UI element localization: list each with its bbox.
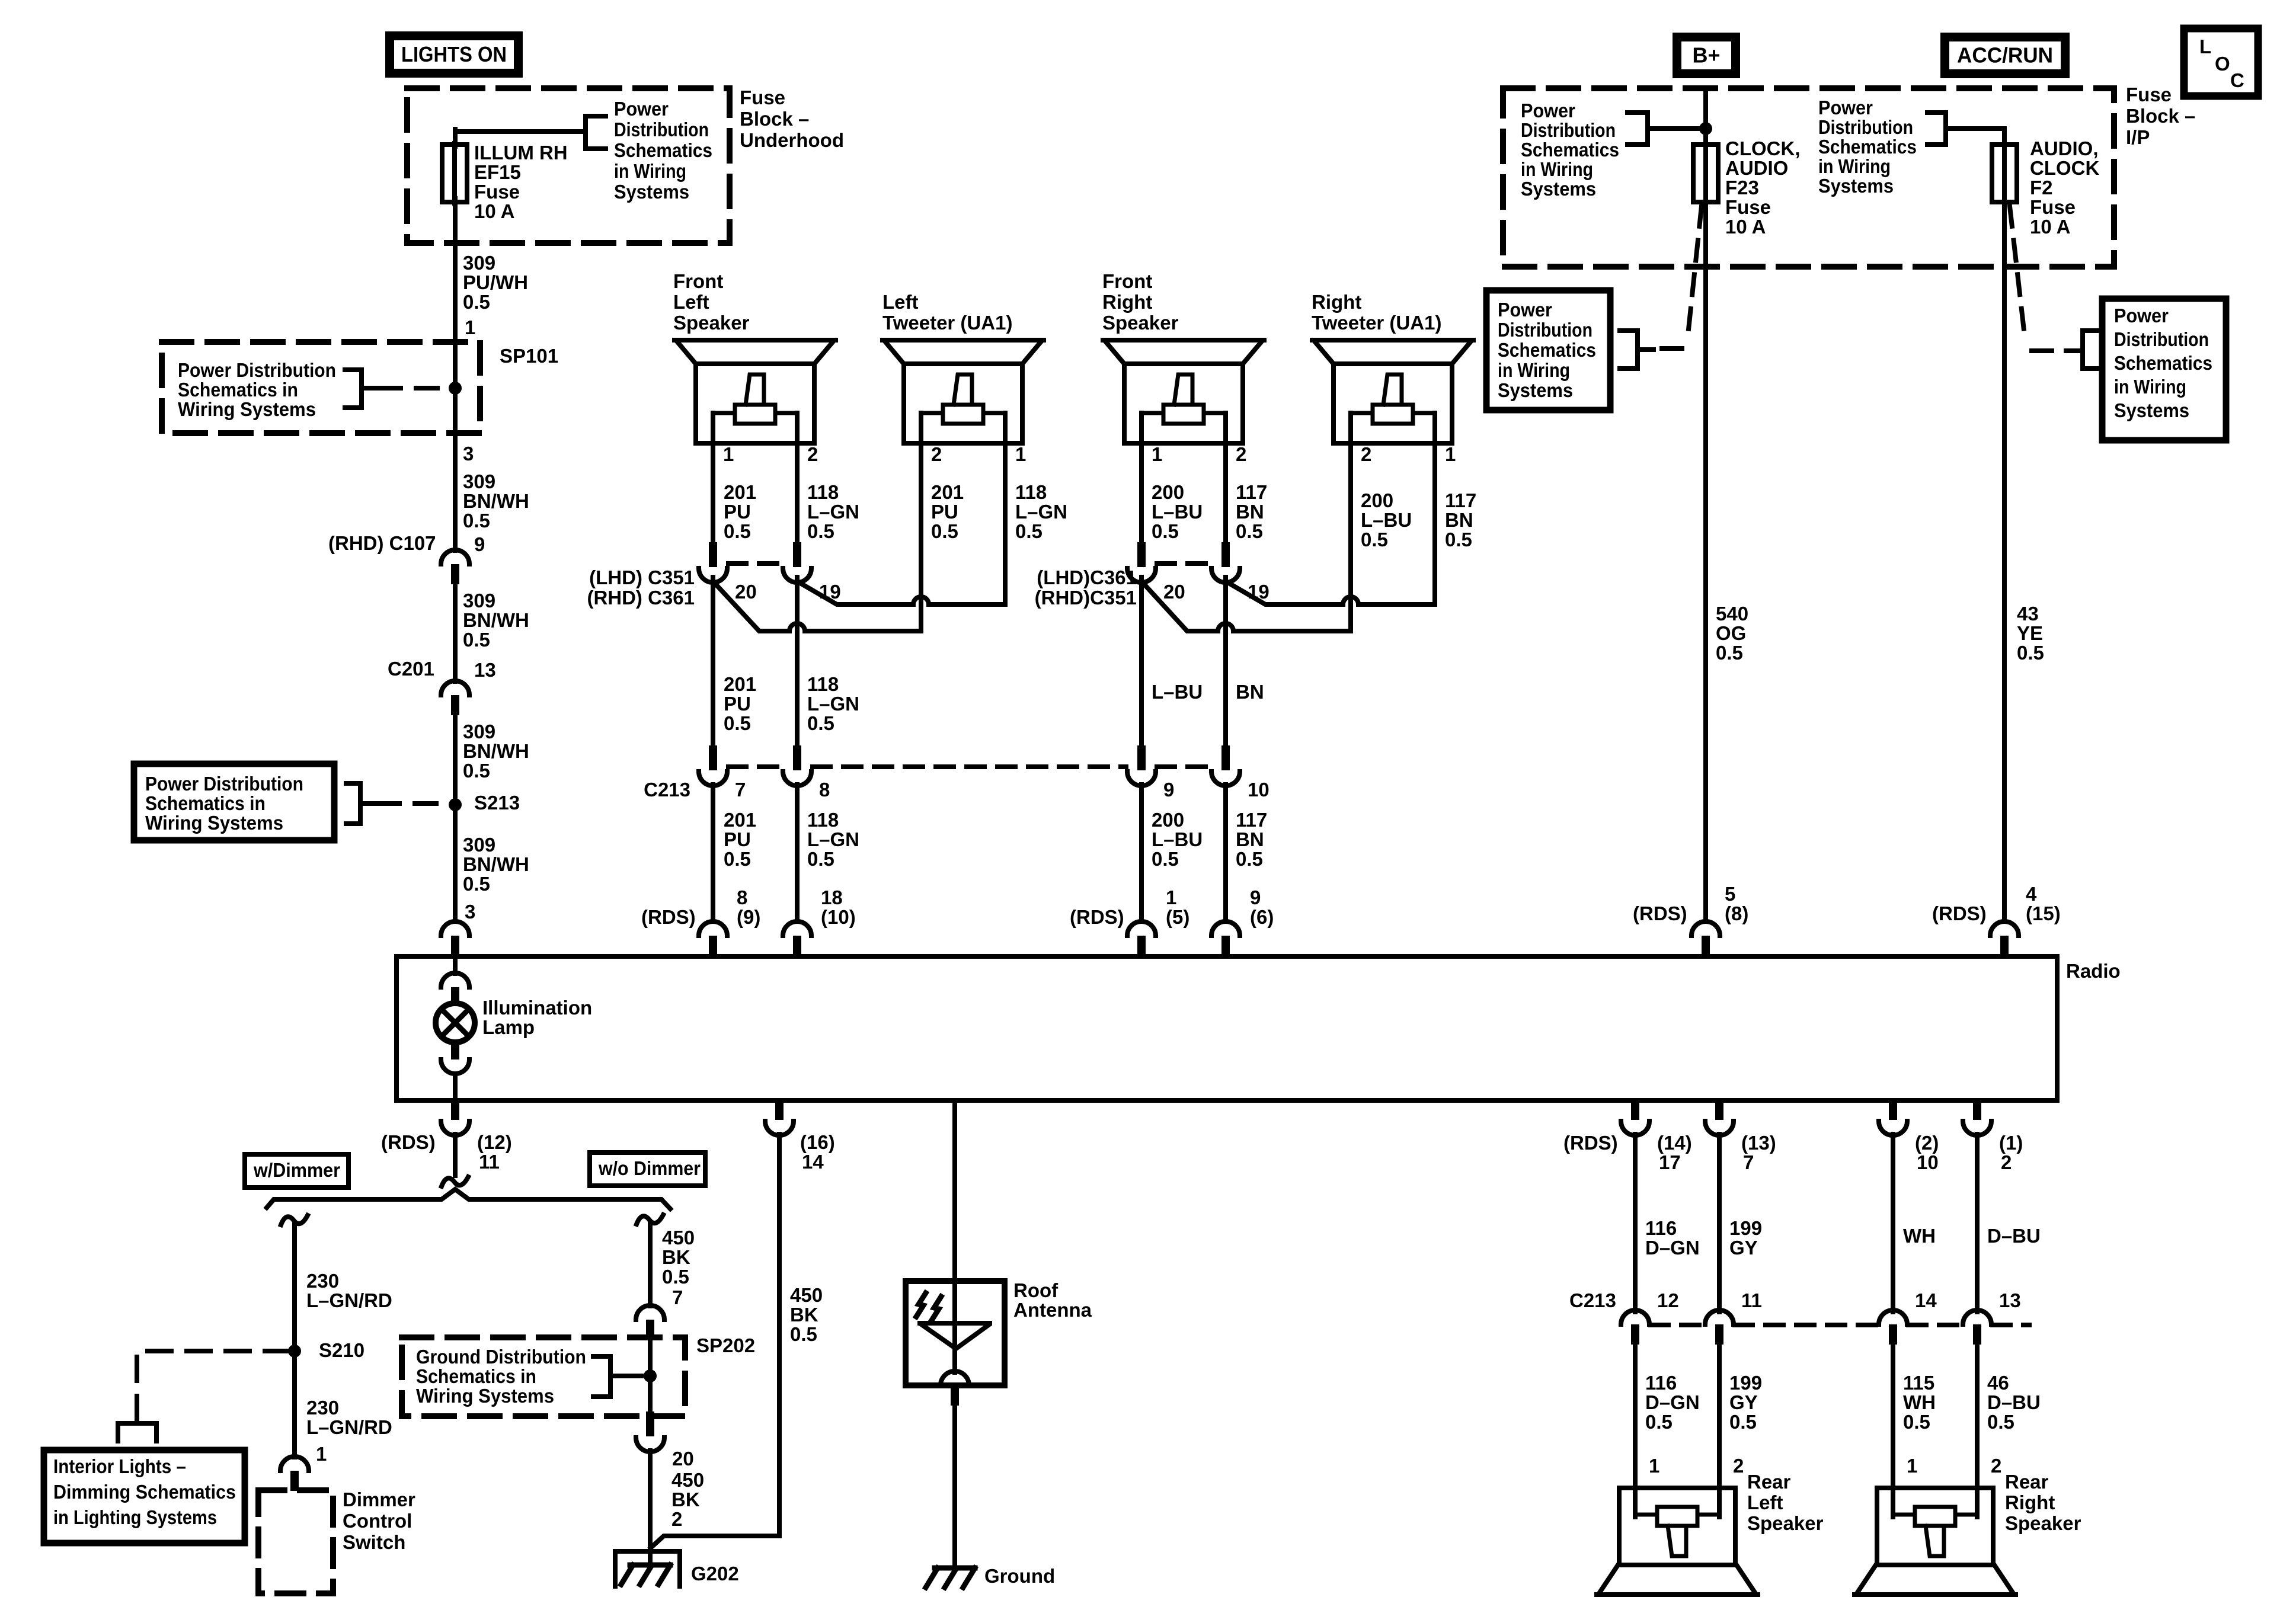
svg-text:Front: Front [1102, 270, 1152, 292]
label 117 BN 0.5 (RT-) [1445, 489, 1476, 550]
label 199 GY 0.5 [1729, 1372, 1762, 1433]
svg-text:Systems: Systems [1818, 175, 1894, 197]
wire 230 L-GN/RD (to S210) [292, 1224, 297, 1351]
svg-text:(10): (10) [821, 906, 856, 928]
wire 450 BK 2 (SP202 to G202) [648, 1451, 653, 1565]
svg-text:1: 1 [723, 443, 734, 465]
svg-text:10: 10 [1248, 779, 1269, 801]
label 8 (C213) [819, 779, 830, 801]
wire break squiggle (w/Dimmer) [281, 1215, 308, 1225]
svg-text:116: 116 [1645, 1217, 1677, 1239]
label (RDS) (rear) [1563, 1132, 1618, 1154]
svg-text:L–GN: L–GN [807, 501, 859, 523]
reference bracket S213 [346, 783, 376, 824]
svg-text:BK: BK [671, 1489, 700, 1510]
label (LHD)C361 / (RHD)C351 [1035, 566, 1137, 609]
svg-text:1: 1 [1152, 443, 1162, 465]
label 450 BK 0.5 (w/o dimmer) [662, 1227, 695, 1288]
svg-text:Schematics in: Schematics in [416, 1365, 536, 1387]
svg-text:116: 116 [1645, 1372, 1677, 1394]
svg-text:BN: BN [1236, 501, 1264, 523]
svg-text:201: 201 [724, 809, 756, 831]
label 20 (left) [735, 581, 757, 603]
svg-text:0.5: 0.5 [1987, 1411, 2014, 1433]
svg-text:(LHD) C351: (LHD) C351 [589, 566, 695, 588]
svg-text:Radio: Radio [2066, 960, 2121, 982]
svg-text:PU/WH: PU/WH [463, 271, 528, 293]
svg-text:C201: C201 [388, 658, 434, 680]
svg-text:9: 9 [1250, 886, 1261, 908]
svg-text:5: 5 [1725, 883, 1735, 905]
svg-text:2: 2 [807, 443, 818, 465]
svg-text:Systems: Systems [614, 181, 689, 203]
label 46 D–BU 0.5 [1987, 1372, 2041, 1433]
label 201 PU 0.5 (FL+) [724, 481, 756, 542]
svg-text:0.5: 0.5 [1445, 529, 1472, 550]
wire tweeter crossover lower (FL pin20 to LT pin2) [713, 443, 921, 631]
label 201 PU 0.5 (lower) [724, 809, 756, 870]
svg-text:GY: GY [1729, 1237, 1758, 1259]
svg-text:I/P: I/P [2126, 126, 2150, 148]
connector radio pin 4 [1990, 921, 2019, 958]
svg-text:118: 118 [807, 809, 839, 831]
svg-text:PU: PU [724, 693, 751, 715]
wire through SP202 [648, 1340, 653, 1416]
svg-text:Left: Left [882, 291, 919, 313]
label 309 BN/WH 0.5 (d) [463, 834, 529, 895]
svg-text:L–GN/RD: L–GN/RD [306, 1289, 392, 1311]
label (RDS) (right pair) [1070, 906, 1124, 928]
svg-text:2: 2 [1733, 1455, 1744, 1477]
connector SP202 out [636, 1411, 664, 1452]
svg-text:0.5: 0.5 [931, 520, 958, 542]
label 118 L-GN 0.5 (FL-) [807, 481, 859, 542]
wire 200 L-BU 0.5 (C213 to radio) [1139, 785, 1144, 920]
svg-text:230: 230 [306, 1397, 339, 1419]
svg-text:Fuse: Fuse [1725, 196, 1771, 218]
svg-text:2: 2 [1361, 443, 1371, 465]
svg-text:540: 540 [1716, 603, 1748, 625]
label 118 L-GN 0.5 (mid FL) [807, 673, 859, 734]
svg-text:1: 1 [1649, 1455, 1659, 1477]
label 118 L-GN 0.5 (LT-) [1015, 481, 1067, 542]
svg-text:2: 2 [1991, 1455, 2001, 1477]
svg-text:Distribution: Distribution [1521, 119, 1616, 141]
label G202 [691, 1563, 739, 1585]
svg-text:2: 2 [671, 1508, 682, 1530]
svg-text:0.5: 0.5 [662, 1266, 689, 1288]
label Power Distribution Schematics in Wiring Systems (B+ side) [1521, 100, 1619, 200]
svg-text:0.5: 0.5 [463, 629, 490, 651]
svg-text:in Wiring: in Wiring [2114, 376, 2186, 398]
svg-text:in Wiring: in Wiring [1521, 158, 1593, 180]
svg-text:1: 1 [465, 316, 475, 338]
splice SP101 dashed box [162, 342, 480, 433]
svg-text:OG: OG [1716, 622, 1746, 644]
svg-text:0.5: 0.5 [724, 712, 751, 734]
svg-text:1: 1 [1445, 443, 1456, 465]
wire 309 BN/WH 0.5 (S213 to radio) [453, 805, 458, 920]
wire B+ to fuse F23 [1703, 89, 1708, 145]
svg-text:S210: S210 [319, 1339, 364, 1361]
label 9 / (6) [1250, 886, 1274, 928]
dashed connector link C351 left [728, 561, 782, 566]
svg-text:Dimming Schematics: Dimming Schematics [53, 1481, 236, 1503]
logo LOC box [2184, 28, 2258, 96]
svg-text:(16): (16) [800, 1131, 835, 1153]
wire 450 BK 0.5 (pin 14 to G202) [651, 1134, 779, 1548]
svg-text:0.5: 0.5 [807, 712, 834, 734]
wire 450 BK 0.5 (to SP202) [648, 1224, 653, 1306]
reference bracket (ACC power dist box) [2066, 331, 2101, 369]
splice junction dot S213 [449, 798, 462, 811]
svg-text:SP101: SP101 [500, 345, 558, 367]
svg-text:(RHD)C351: (RHD)C351 [1035, 587, 1137, 609]
svg-text:(5): (5) [1166, 906, 1189, 928]
component Radio (main box) [396, 956, 2057, 1100]
label 201 PU 0.5 (LT+) [931, 481, 964, 542]
label 20 (G202 feed) [672, 1448, 694, 1470]
label 43 YE 0.5 [2017, 603, 2044, 664]
connector radio pin 18 [783, 921, 811, 958]
connector C213 rear 12 [1621, 1310, 1649, 1345]
svg-text:L–BU: L–BU [1361, 509, 1412, 531]
svg-text:450: 450 [790, 1284, 823, 1306]
svg-text:w/o Dimmer: w/o Dimmer [598, 1157, 701, 1179]
svg-text:Switch: Switch [343, 1531, 405, 1553]
svg-text:(RDS): (RDS) [1633, 902, 1687, 924]
junction dot SP101 [449, 382, 462, 395]
svg-text:L–BU: L–BU [1152, 828, 1203, 850]
connector C351 pin 20 (FL) [699, 542, 727, 582]
svg-text:18: 18 [821, 886, 843, 908]
svg-text:0.5: 0.5 [1716, 642, 1743, 664]
label 19 (right) [1248, 581, 1269, 603]
svg-text:117: 117 [1236, 809, 1267, 831]
label 450 BK 0.5 (pin 14) [790, 1284, 823, 1345]
fuse F2 AUDIO CLOCK 10A [1992, 143, 2017, 203]
svg-text:D–BU: D–BU [1987, 1391, 2041, 1413]
dashed link F23 to power distribution box [1659, 206, 1702, 348]
svg-text:Ground Distribution: Ground Distribution [416, 1346, 586, 1368]
svg-text:F23: F23 [1725, 177, 1759, 199]
svg-text:in Wiring: in Wiring [1498, 359, 1570, 381]
svg-text:Antenna: Antenna [1013, 1299, 1092, 1321]
svg-text:Fuse: Fuse [474, 181, 520, 203]
svg-text:2: 2 [1236, 443, 1246, 465]
svg-text:Systems: Systems [1521, 178, 1596, 200]
label pin 9 [474, 533, 485, 555]
connector radio pin 3 [441, 921, 469, 958]
svg-text:0.5: 0.5 [1236, 848, 1263, 870]
svg-text:(RHD) C361: (RHD) C361 [587, 587, 695, 609]
svg-text:14: 14 [1915, 1289, 1937, 1311]
svg-text:CLOCK,: CLOCK, [1725, 137, 1801, 159]
svg-text:D–GN: D–GN [1645, 1237, 1700, 1259]
svg-text:117: 117 [1445, 489, 1476, 511]
node w/Dimmer option box [245, 1154, 348, 1188]
connector C213 rear 13 [1963, 1310, 1991, 1345]
wire tweeter crossover upper (FR pin19 to RT pin1) [1226, 443, 1435, 604]
svg-text:0.5: 0.5 [807, 520, 834, 542]
svg-text:4: 4 [2026, 883, 2037, 905]
svg-text:L: L [2199, 36, 2211, 57]
svg-text:Wiring Systems: Wiring Systems [416, 1385, 554, 1407]
connector radio pin 1 [1127, 921, 1156, 958]
label Power Distribution Schematics in Wiring Systems (SP101) [178, 359, 336, 420]
svg-text:0.5: 0.5 [1015, 520, 1043, 542]
label AUDIO, CLOCK F2 Fuse 10 A [2030, 137, 2099, 238]
svg-text:Power: Power [614, 98, 669, 120]
svg-text:11: 11 [1741, 1289, 1762, 1311]
svg-text:L–BU: L–BU [1152, 501, 1203, 523]
svg-text:BN: BN [1445, 509, 1473, 531]
svg-text:F2: F2 [2030, 177, 2053, 199]
svg-text:(RDS): (RDS) [641, 906, 696, 928]
junction dot SP202 [644, 1369, 657, 1382]
label 201 PU 0.5 (mid FL) [724, 673, 756, 734]
svg-text:20: 20 [1163, 581, 1185, 603]
label Ground Distribution Schematics in Wiring Systems [416, 1346, 586, 1407]
svg-text:Power: Power [1521, 100, 1575, 121]
svg-text:S213: S213 [474, 792, 520, 814]
wire 200 L-BU (C361 to C213) [1139, 577, 1144, 748]
connector radio pin 8 [699, 921, 727, 958]
dashed connector link C213 rear [1651, 1323, 2029, 1327]
connector radio pin 9 [1211, 921, 1240, 958]
svg-text:7: 7 [672, 1286, 683, 1308]
svg-text:Systems: Systems [2114, 399, 2189, 421]
label (RDS) (ACC) [1932, 902, 1987, 924]
label (RDS) (dimmer) [381, 1131, 436, 1153]
svg-text:Power Distribution: Power Distribution [145, 773, 303, 795]
svg-text:0.5: 0.5 [1645, 1411, 1673, 1433]
svg-text:D–GN: D–GN [1645, 1391, 1700, 1413]
svg-text:Tweeter (UA1): Tweeter (UA1) [1312, 312, 1441, 334]
svg-text:Tweeter (UA1): Tweeter (UA1) [882, 312, 1012, 334]
svg-text:D–BU: D–BU [1987, 1225, 2041, 1247]
svg-text:201: 201 [724, 481, 756, 503]
label (14) / 17 [1657, 1132, 1692, 1173]
svg-text:Wiring Systems: Wiring Systems [178, 398, 316, 420]
label Roof Antenna [1013, 1279, 1092, 1321]
svg-text:0.5: 0.5 [463, 873, 490, 895]
label 11 (C213 rear) [1741, 1289, 1762, 1311]
svg-text:Speaker: Speaker [673, 312, 750, 334]
fuse block - I/P (dashed box) [1503, 88, 2114, 267]
label 309 BN/WH 0.5 (a) [463, 470, 529, 532]
svg-text:Schematics in: Schematics in [178, 379, 298, 401]
label 4 / (15) [2026, 883, 2061, 924]
svg-text:117: 117 [1236, 481, 1267, 503]
svg-text:(RDS): (RDS) [1563, 1132, 1618, 1154]
svg-text:GY: GY [1729, 1391, 1758, 1413]
svg-text:Right: Right [2005, 1491, 2055, 1513]
svg-text:(15): (15) [2026, 902, 2061, 924]
wire 309 BN/WH 0.5 (C201 to S213) [453, 715, 458, 805]
label 230 L-GN/RD (lower) [306, 1397, 392, 1438]
label 117 BN 0.5 (lower) [1236, 809, 1267, 870]
component Dimmer Control Switch (dashed box) [258, 1490, 333, 1593]
svg-text:B+: B+ [1692, 43, 1720, 68]
label 118 L-GN 0.5 (lower) [807, 809, 859, 870]
svg-text:Fuse: Fuse [2126, 84, 2172, 105]
connector C213 pin 10 [1211, 745, 1240, 786]
label Dimmer Control Switch [343, 1489, 415, 1553]
fuse block - underhood (dashed box) [407, 88, 730, 243]
label 5 / (8) [1725, 883, 1748, 924]
label WH [1903, 1225, 1936, 1247]
svg-text:Systems: Systems [1498, 379, 1573, 401]
label 450 BK 2 [671, 1469, 704, 1530]
label (2) / 10 [1915, 1132, 1939, 1173]
connector antenna ground out [941, 1371, 969, 1406]
svg-text:Power Distribution: Power Distribution [178, 359, 336, 381]
label 13 (C213 rear) [1999, 1289, 2021, 1311]
svg-text:43: 43 [2017, 603, 2039, 625]
wire 199 GY (radio to C213) [1717, 1134, 1722, 1312]
label S213 [474, 792, 520, 814]
label D–BU [1987, 1225, 2041, 1247]
svg-text:Power: Power [1818, 97, 1873, 119]
svg-text:BN/WH: BN/WH [463, 853, 529, 875]
svg-text:0.5: 0.5 [463, 291, 490, 313]
svg-text:Left: Left [673, 291, 709, 313]
connector dimmer control switch pin 1 [280, 1457, 309, 1491]
wire 116 D–GN (radio to C213) [1633, 1134, 1638, 1312]
label 14 (C213 rear) [1915, 1289, 1937, 1311]
connector C351 pin 19 (FL) [783, 542, 811, 582]
reference bracket to Power Distribution Schematics (underhood) [586, 116, 606, 149]
dashed link to splice SP202 [628, 1374, 641, 1378]
svg-text:(9): (9) [737, 906, 760, 928]
svg-text:0.5: 0.5 [1903, 1411, 1930, 1433]
connector radio rear pin 7 [1705, 1100, 1734, 1135]
connector radio pin 11 (illum out) [441, 1100, 469, 1135]
svg-text:10 A: 10 A [1725, 216, 1766, 238]
connector C213 rear 14 [1879, 1310, 1907, 1345]
svg-text:Schematics: Schematics [1521, 139, 1619, 161]
svg-text:Block –: Block – [2126, 105, 2195, 127]
svg-text:Distribution: Distribution [1818, 116, 1913, 138]
wire radio to roof antenna [952, 1100, 957, 1283]
connector radio rear pin 2 [1963, 1100, 1991, 1135]
svg-text:O: O [2215, 53, 2230, 75]
connector C213 rear 11 [1705, 1310, 1734, 1345]
svg-text:BK: BK [662, 1246, 690, 1268]
dashed link S210 to interior lights ref [137, 1351, 289, 1421]
node B+ (battery feed flag) [1677, 37, 1736, 74]
label (12) / 11 [477, 1131, 512, 1173]
reference bracket (B+ power dist box) [1620, 331, 1654, 369]
label S210 [319, 1339, 364, 1361]
svg-text:(2): (2) [1915, 1132, 1939, 1154]
label pin 3 (radio illum) [465, 901, 475, 923]
label pin 13 [474, 659, 496, 681]
wire 309 PU/WH 0.5 (fuse EF15 to SP101) [453, 199, 458, 388]
wire 201 PU (C351 to C213) [711, 577, 715, 748]
label 1 / (5) [1166, 886, 1189, 928]
svg-text:in Lighting Systems: in Lighting Systems [53, 1506, 217, 1528]
label SP202 [696, 1334, 755, 1356]
svg-text:3: 3 [463, 443, 474, 465]
svg-text:w/Dimmer: w/Dimmer [253, 1159, 340, 1181]
dashed link to splice SP101 [379, 386, 448, 391]
label BN (mid FR) [1236, 681, 1264, 703]
label 199 GY [1729, 1217, 1762, 1259]
svg-text:BN: BN [1236, 681, 1264, 703]
svg-text:20: 20 [735, 581, 757, 603]
svg-text:7: 7 [1743, 1151, 1754, 1173]
wire 46 D–BU 0.5 (C213 to speaker) [1975, 1344, 1980, 1517]
svg-text:Right: Right [1312, 291, 1361, 313]
label pin 3 [463, 443, 474, 465]
label 9 (C213) [1163, 779, 1174, 801]
svg-text:115: 115 [1903, 1372, 1934, 1394]
label 309 BN/WH 0.5 (c) [463, 721, 529, 782]
svg-text:CLOCK: CLOCK [2030, 157, 2099, 179]
svg-text:0.5: 0.5 [1361, 529, 1388, 550]
label 7 [735, 779, 746, 801]
label (RHD) C107 [328, 532, 436, 554]
svg-text:230: 230 [306, 1270, 339, 1292]
label pin 2 (rear speaker) [1733, 1455, 1744, 1477]
connector inside radio (illumination lamp top) [441, 956, 469, 1005]
svg-text:in Wiring: in Wiring [614, 160, 686, 182]
svg-text:C213: C213 [1569, 1289, 1616, 1311]
box Power Distribution Schematics in Wiring Systems (S213) [134, 764, 334, 840]
svg-text:1: 1 [316, 1443, 327, 1465]
label 200 L-BU 0.5 (lower) [1152, 809, 1203, 870]
svg-text:0.5: 0.5 [1152, 848, 1179, 870]
label 200 L-BU 0.5 (FR+) [1152, 481, 1203, 542]
label (13) / 7 [1741, 1132, 1776, 1173]
svg-text:BN/WH: BN/WH [463, 609, 529, 631]
svg-text:Distribution: Distribution [2114, 328, 2209, 350]
svg-text:8: 8 [737, 886, 747, 908]
svg-text:1: 1 [1015, 443, 1026, 465]
svg-text:(8): (8) [1725, 902, 1748, 924]
label ILLUM RH EF15 Fuse 10 A [474, 142, 568, 222]
connector radio pin 14 [765, 1100, 794, 1135]
svg-text:200: 200 [1152, 809, 1184, 831]
label C201 [388, 658, 434, 680]
svg-text:L–GN: L–GN [807, 693, 859, 715]
label SP101 [500, 345, 558, 367]
svg-text:(LHD)C361: (LHD)C361 [1037, 566, 1137, 588]
speaker Left Tweeter (UA1) [882, 291, 1044, 542]
node LIGHTS ON (power feed flag) [390, 36, 519, 73]
svg-text:0.5: 0.5 [1152, 520, 1179, 542]
wire dimmer option split line [267, 1189, 670, 1209]
svg-text:0.5: 0.5 [790, 1323, 817, 1345]
svg-text:13: 13 [474, 659, 496, 681]
wire tweeter crossover lower (FR pin20 to RT pin2) [1141, 443, 1351, 631]
svg-text:ILLUM RH: ILLUM RH [474, 142, 568, 164]
wire 43 YE 0.5 (F2 to radio pin4) [2002, 199, 2007, 920]
svg-text:Front: Front [673, 270, 723, 292]
svg-text:(6): (6) [1250, 906, 1274, 928]
svg-text:BN/WH: BN/WH [463, 490, 529, 512]
label 117 BN 0.5 (FR-) [1236, 481, 1267, 542]
svg-text:309: 309 [463, 834, 495, 856]
antenna symbol (triangle) [920, 1281, 990, 1372]
svg-text:309: 309 [463, 252, 495, 274]
ground (antenna) [926, 1568, 975, 1587]
connector C201 [441, 681, 469, 715]
svg-text:118: 118 [807, 673, 839, 695]
wire 309 BN/WH 0.5 (C107 to C201) [453, 584, 458, 681]
